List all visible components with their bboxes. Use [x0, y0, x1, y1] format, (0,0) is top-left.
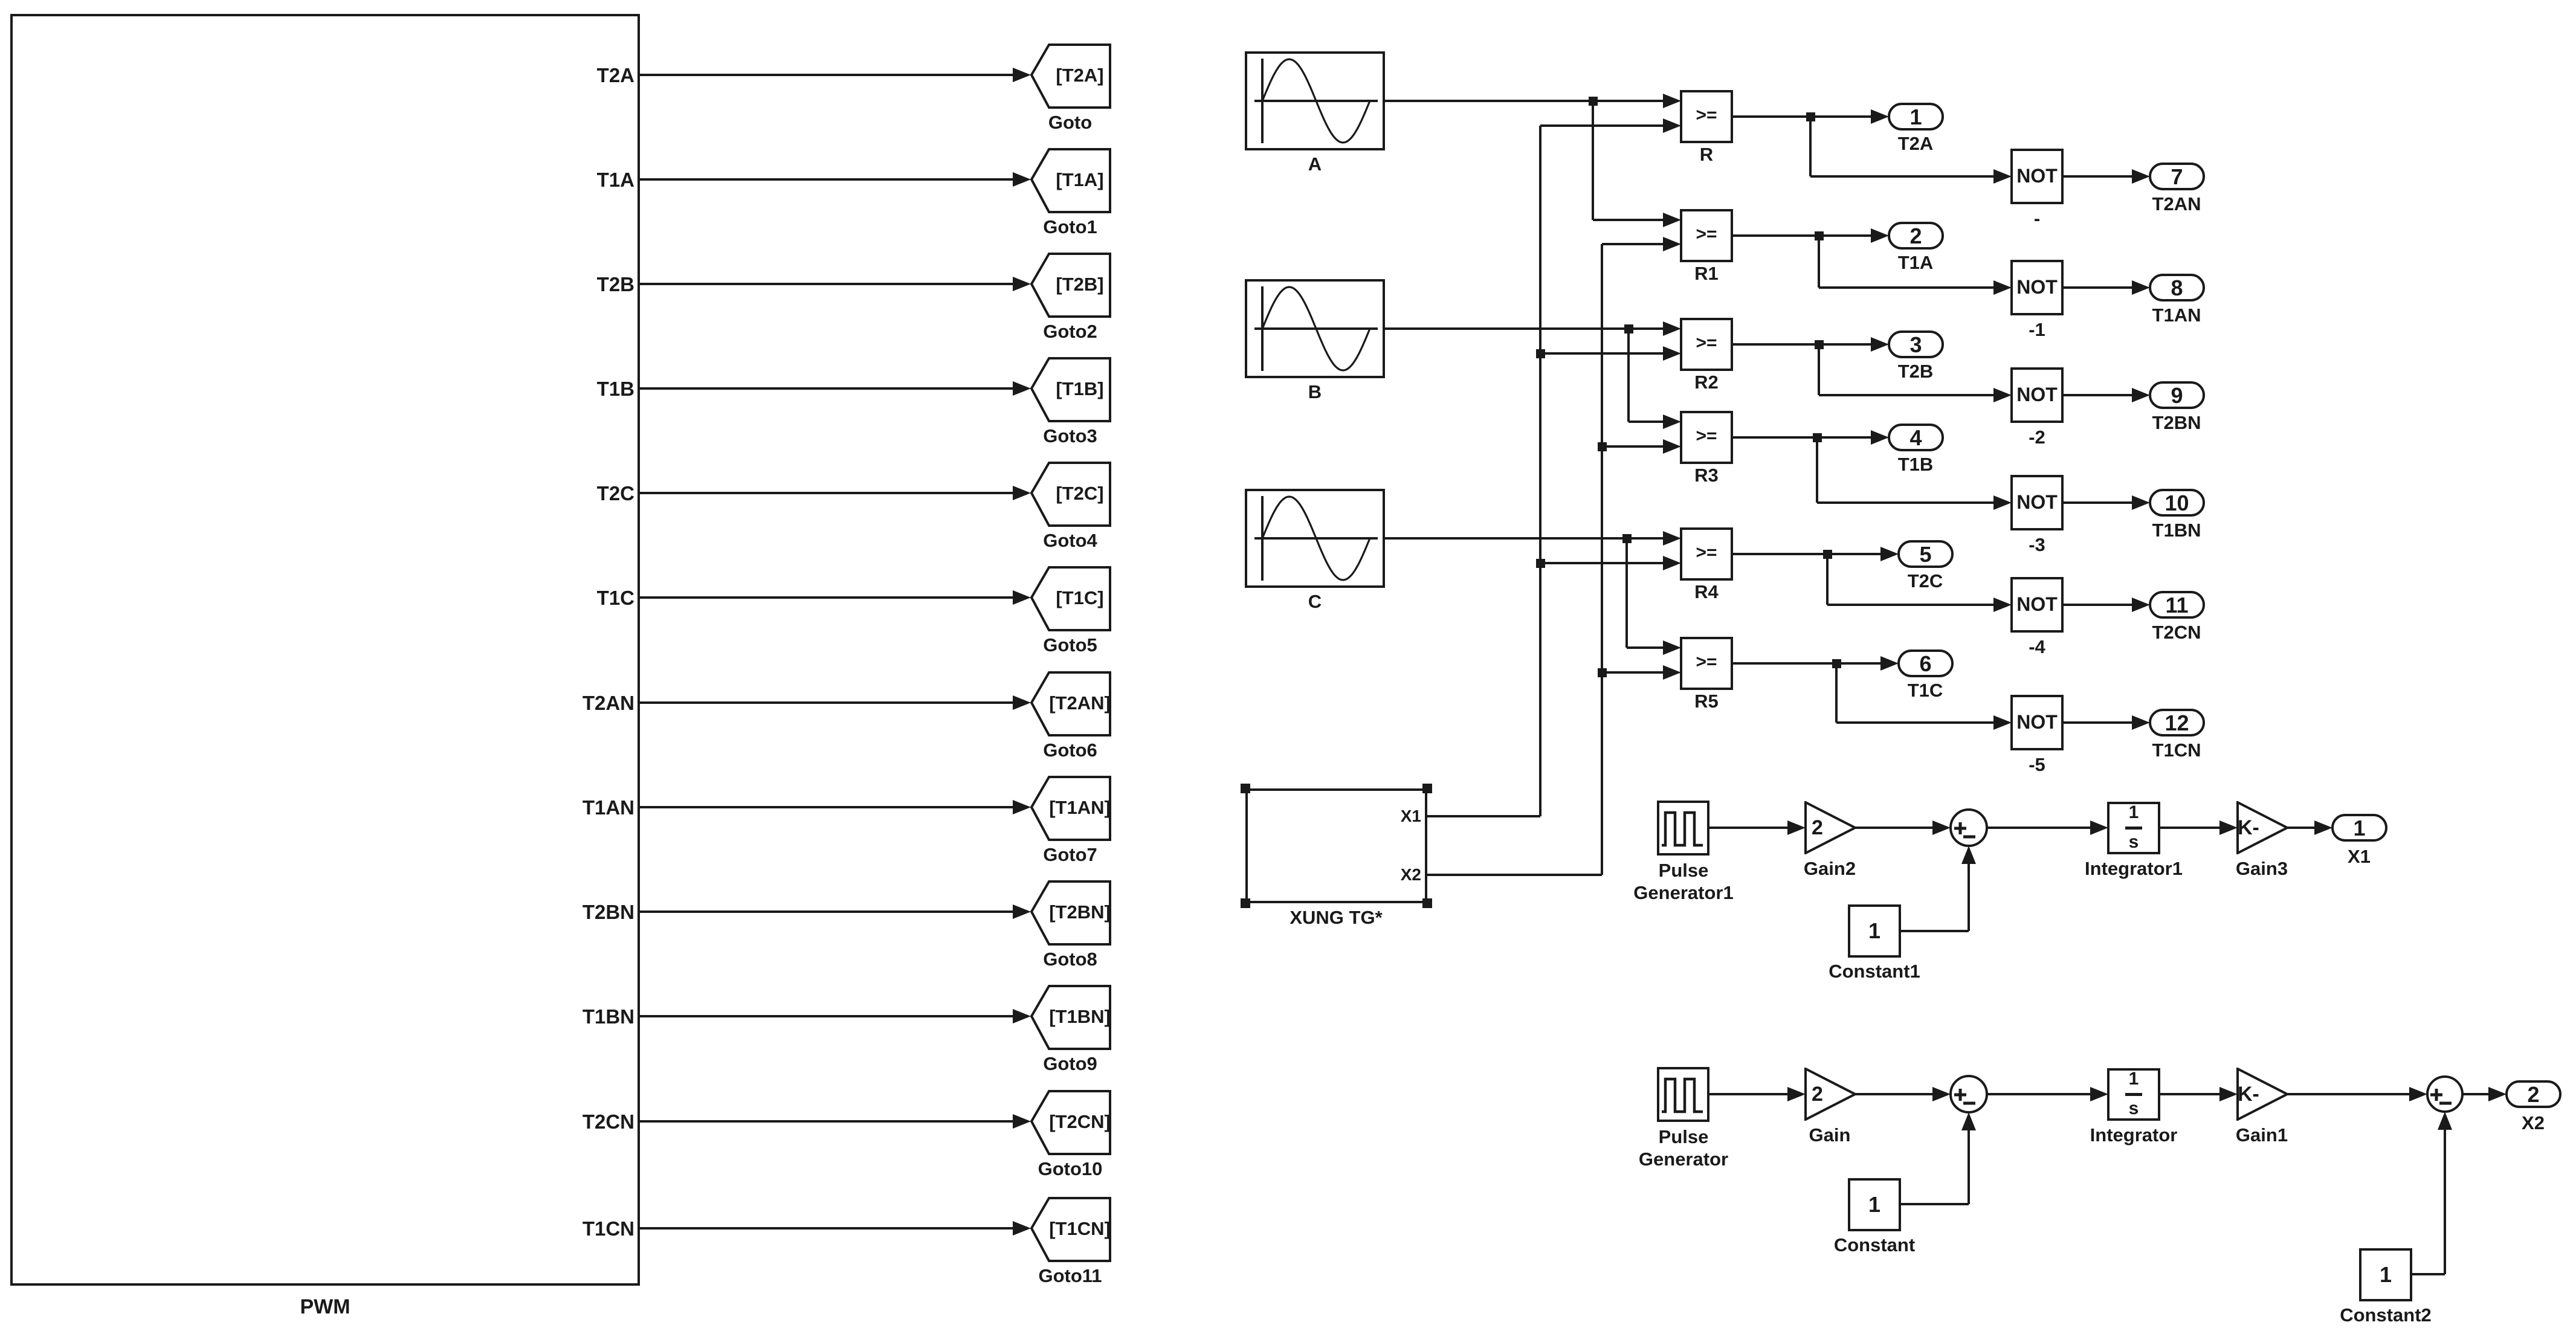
logical operator block NOT (-5): [2010, 695, 2064, 750]
sum block Sum1 (+-): [1949, 808, 1989, 848]
output port 8 T1AN: [2149, 274, 2205, 301]
svg-text:K-: K-: [2238, 816, 2259, 839]
PWM output port label T2A: [453, 63, 634, 87]
logical operator block NOT (-): [2010, 149, 2064, 204]
wire T2A to Goto: [640, 74, 1014, 76]
wire NOT to port 9: [2064, 394, 2133, 396]
output port 4 T1B: [1888, 424, 1944, 451]
sine source block B: [1245, 279, 1385, 378]
Goto tag block Goto5 [T1C]: [1030, 566, 1112, 632]
Goto tag block Goto6 [T2AN]: [1030, 671, 1112, 737]
wire T2B to Goto2: [640, 283, 1014, 285]
wire C branch to R5 input1: [1625, 538, 1628, 648]
PWM output port label T2AN: [453, 691, 634, 715]
svg-text:[T2A]: [T2A]: [1056, 65, 1103, 86]
output port 10 T1BN: [2149, 489, 2205, 517]
pulse generator block Pulse Generator: [1657, 1067, 1709, 1122]
wire Constant to Sum: [1900, 1203, 1969, 1205]
output port 7 T2AN: [2149, 163, 2205, 190]
relational operator block R5: [1680, 637, 1733, 690]
PWM output port label T1C: [453, 586, 634, 610]
gain block Gain1 (K-): [2236, 1068, 2290, 1121]
wire Gain2 to Sum1: [1855, 827, 1934, 829]
wire B to R2 input1: [1385, 327, 1665, 330]
sum block Sum2 (+-): [2426, 1075, 2464, 1113]
subsystem block XUNG TG*: [1245, 788, 1427, 903]
constant block Constant1 (1): [1848, 904, 1901, 958]
wire C to R4 input1: [1385, 537, 1665, 540]
wire T2CN to Goto10: [640, 1120, 1014, 1123]
wire A to R input1: [1385, 100, 1665, 102]
wire T2BN to Goto8: [640, 910, 1014, 913]
output port 6 T1C: [1897, 649, 1954, 677]
wire branch to NOT -1: [1818, 236, 1820, 288]
output port 3 T2B: [1888, 330, 1944, 358]
svg-text:[T1BN]: [T1BN]: [1049, 1006, 1111, 1027]
svg-text:2: 2: [1812, 1083, 1823, 1106]
relational operator block R: [1680, 90, 1733, 143]
wire branch to NOT -3: [1816, 437, 1818, 503]
wire T1A to Goto1: [640, 178, 1014, 181]
wire Gain1 to Sum2: [2288, 1093, 2410, 1095]
wire Gain to Sum: [1855, 1093, 1934, 1095]
svg-text:[T1C]: [T1C]: [1056, 587, 1103, 608]
wire Gain3 to port X1: [2288, 827, 2316, 829]
Goto tag block Goto3 [T1B]: [1030, 356, 1112, 423]
wire R2 output to port 3: [1733, 343, 1872, 346]
wire R output to port 1: [1733, 115, 1872, 118]
Goto tag block Goto8 [T2BN]: [1030, 880, 1112, 946]
PWM output port label T1A: [453, 168, 634, 192]
output port 1 X1: [2331, 814, 2387, 842]
Goto tag block Goto10 [T2CN]: [1030, 1089, 1112, 1156]
gain block Gain (2): [1804, 1068, 1858, 1121]
wire B branch to R3 input1: [1627, 329, 1630, 422]
svg-text:[T1CN]: [T1CN]: [1049, 1218, 1111, 1239]
relational operator block R2: [1680, 318, 1733, 371]
svg-text:[T2AN]: [T2AN]: [1049, 692, 1111, 714]
relational operator block R1: [1680, 209, 1733, 262]
constant block Constant (1): [1848, 1178, 1901, 1231]
constant block Constant2 (1): [2359, 1248, 2412, 1301]
output port 1 T2A: [1888, 103, 1944, 131]
wire branch to NOT -5: [1835, 663, 1838, 723]
output port 2 T1A: [1888, 222, 1944, 250]
wire Sum to Integrator: [1987, 1093, 2091, 1095]
wire R1 output to port 2: [1733, 234, 1872, 237]
wire T2AN to Goto6: [640, 701, 1014, 704]
logical operator block NOT (-4): [2010, 577, 2064, 633]
svg-text:[T2B]: [T2B]: [1056, 274, 1103, 295]
svg-text:[T1A]: [T1A]: [1056, 169, 1103, 190]
gain block Gain2 (2): [1804, 801, 1858, 854]
pulse generator block Pulse Generator1: [1657, 801, 1709, 856]
wire Integrator to Gain1: [2160, 1093, 2221, 1095]
Goto tag block Goto7 [T1AN]: [1030, 775, 1112, 842]
output port 12 T1CN: [2149, 709, 2205, 736]
wire NOT to port 8: [2064, 286, 2133, 289]
wire Pulse Generator1 to Gain2: [1709, 827, 1789, 829]
Goto tag block Goto4 [T2C]: [1030, 461, 1112, 527]
wire NOT to port 12: [2064, 721, 2133, 724]
Goto tag block Goto [T2A]: [1030, 43, 1112, 109]
wire T2C to Goto4: [640, 492, 1014, 494]
Goto tag block Goto2 [T2B]: [1030, 252, 1112, 318]
PWM output port label T1B: [453, 377, 634, 401]
PWM output port label T2C: [453, 482, 634, 505]
PWM output port label T2B: [453, 272, 634, 296]
logical operator block NOT (-3): [2010, 475, 2064, 530]
svg-text:[T2C]: [T2C]: [1056, 483, 1103, 504]
wire T1CN to Goto11: [640, 1227, 1014, 1229]
wire NOT to port 11: [2064, 604, 2133, 606]
wire Sum2 to port X2: [2462, 1093, 2490, 1095]
wire NOT to port 10: [2064, 501, 2133, 504]
gain block Gain3 (K-): [2236, 801, 2290, 854]
output port 11 T2CN: [2149, 591, 2205, 619]
svg-text:[T2BN]: [T2BN]: [1049, 901, 1111, 923]
svg-text:[T2CN]: [T2CN]: [1049, 1111, 1111, 1132]
PWM output port label T1BN: [453, 1005, 634, 1028]
relational operator block R4: [1680, 527, 1733, 581]
wire Constant1 to Sum1: [1900, 930, 1969, 932]
svg-text:[T1AN]: [T1AN]: [1049, 797, 1111, 818]
svg-text:[T1B]: [T1B]: [1056, 378, 1103, 399]
Goto tag block Goto1 [T1A]: [1030, 147, 1112, 214]
wire net X2 from XUNG TG*: [1427, 874, 1602, 876]
logical operator block NOT (-2): [2010, 367, 2064, 423]
wire T1B to Goto3: [640, 387, 1014, 390]
output port 5 T2C: [1897, 540, 1954, 568]
wire R3 output to port 4: [1733, 436, 1872, 439]
wire branch to NOT -2: [1818, 344, 1820, 395]
PWM output port label T2CN: [453, 1110, 634, 1133]
sine source block C: [1245, 489, 1385, 588]
Goto tag block Goto11 [T1CN]: [1030, 1196, 1112, 1263]
svg-text:2: 2: [1812, 816, 1823, 839]
wire branch to NOT -4: [1826, 554, 1829, 605]
PWM output port label T2BN: [453, 900, 634, 924]
wire R4 output to port 5: [1733, 553, 1882, 555]
wire Pulse Generator to Gain: [1709, 1093, 1789, 1095]
subsystem block PWM: [10, 14, 640, 1286]
wire branch to NOT -: [1809, 117, 1812, 176]
PWM output port label T1AN: [453, 796, 634, 819]
wire Constant2 to Sum2: [2411, 1273, 2445, 1275]
Goto tag block Goto9 [T1BN]: [1030, 984, 1112, 1051]
svg-text:K-: K-: [2238, 1083, 2259, 1106]
integrator block Integrator1 (1/s): [2107, 802, 2160, 854]
wire Sum1 to Integrator1: [1987, 827, 2091, 829]
wire T1AN to Goto7: [640, 806, 1014, 808]
sine source block A: [1245, 51, 1385, 150]
integrator block Integrator (1/s): [2107, 1068, 2160, 1121]
sum block Sum (+-): [1949, 1074, 1989, 1114]
wire R5 output to port 6: [1733, 662, 1882, 665]
output port 2 X2: [2505, 1080, 2561, 1108]
wire T1C to Goto5: [640, 596, 1014, 599]
PWM output port label T1CN: [453, 1217, 634, 1240]
wire A branch to R1 input1: [1592, 101, 1594, 220]
relational operator block R3: [1680, 411, 1733, 464]
output port 9 T2BN: [2149, 381, 2205, 409]
wire Integrator1 to Gain3: [2160, 827, 2221, 829]
wire net X1 from XUNG TG*: [1427, 815, 1540, 817]
wire T1BN to Goto9: [640, 1015, 1014, 1017]
wire NOT to port 7: [2064, 175, 2133, 178]
logical operator block NOT (-1): [2010, 260, 2064, 315]
